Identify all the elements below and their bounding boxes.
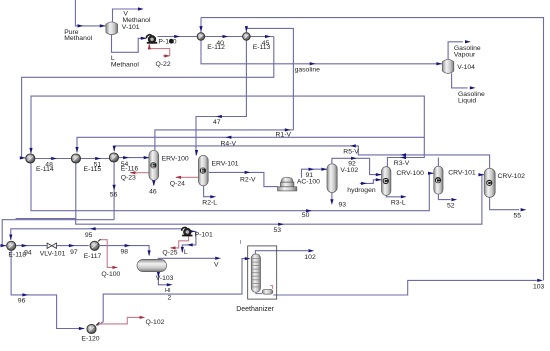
svg-text:46: 46 — [149, 188, 157, 195]
svg-text:V-104: V-104 — [457, 64, 475, 71]
svg-text:52: 52 — [447, 202, 455, 209]
svg-text:E-116: E-116 — [121, 166, 139, 173]
svg-text:E-112: E-112 — [207, 44, 225, 51]
svg-text:R3-L: R3-L — [391, 199, 406, 206]
svg-text:E-120: E-120 — [81, 336, 99, 343]
svg-text:R2-L: R2-L — [202, 200, 217, 207]
svg-text:R2-V: R2-V — [240, 176, 256, 183]
svg-text:95: 95 — [85, 232, 93, 239]
svg-text:P-101: P-101 — [195, 232, 213, 239]
svg-text:97: 97 — [70, 249, 78, 256]
svg-text:R3-V: R3-V — [394, 160, 410, 167]
svg-text:HI: HI — [165, 288, 171, 294]
svg-text:V-102: V-102 — [340, 167, 358, 174]
svg-text:96: 96 — [18, 298, 26, 305]
svg-text:CRV-101: CRV-101 — [448, 169, 476, 176]
svg-text:L: L — [184, 249, 188, 256]
svg-text:91: 91 — [306, 172, 314, 179]
svg-text:R5-V: R5-V — [343, 149, 359, 156]
svg-text:E-114: E-114 — [36, 166, 54, 173]
svg-text:V-103: V-103 — [156, 275, 174, 282]
svg-text:VLV-101: VLV-101 — [40, 251, 66, 258]
svg-text:Methanol: Methanol — [111, 61, 139, 68]
svg-text:Q-24: Q-24 — [170, 181, 185, 188]
svg-text:50: 50 — [302, 212, 310, 219]
svg-text:103: 103 — [533, 284, 545, 291]
svg-text:P-100: P-100 — [158, 39, 176, 46]
svg-text:93: 93 — [339, 201, 347, 208]
svg-text:Q-100: Q-100 — [101, 271, 120, 278]
svg-text:Methanol: Methanol — [64, 35, 92, 42]
svg-text:E: E — [151, 163, 155, 169]
svg-text:56: 56 — [110, 192, 118, 199]
svg-text:ERV-100: ERV-100 — [162, 156, 189, 163]
svg-text:E-115: E-115 — [84, 166, 102, 173]
svg-text:Q-23: Q-23 — [121, 175, 136, 182]
svg-text:2: 2 — [168, 295, 172, 302]
svg-text:R4-V: R4-V — [221, 141, 237, 148]
svg-text:R1-V: R1-V — [276, 132, 292, 139]
svg-text:98: 98 — [121, 249, 129, 256]
svg-text:gasoline: gasoline — [295, 66, 321, 73]
svg-text:E-113: E-113 — [253, 44, 271, 51]
svg-text:E-118: E-118 — [8, 252, 26, 259]
svg-text:CRV-100: CRV-100 — [396, 170, 424, 177]
svg-text:53: 53 — [274, 227, 282, 234]
svg-text:V: V — [214, 261, 219, 268]
svg-text:47: 47 — [213, 119, 221, 126]
svg-text:hydrogen: hydrogen — [347, 187, 376, 194]
svg-text:E: E — [201, 169, 205, 175]
svg-text:V-101: V-101 — [122, 24, 140, 31]
svg-text:Vapour: Vapour — [454, 51, 476, 58]
svg-text:Liquid: Liquid — [458, 97, 476, 104]
svg-text:102: 102 — [304, 254, 316, 261]
svg-text:E-117: E-117 — [84, 253, 102, 260]
svg-text:ERV-101: ERV-101 — [212, 160, 239, 167]
svg-text:AC-100: AC-100 — [297, 179, 320, 186]
svg-text:Q-25: Q-25 — [162, 249, 177, 256]
svg-text:92: 92 — [348, 161, 356, 168]
svg-text:55: 55 — [514, 213, 522, 220]
svg-text:Q-22: Q-22 — [156, 61, 171, 68]
svg-text:Deethanizer: Deethanizer — [236, 306, 274, 313]
svg-text:Q-102: Q-102 — [146, 319, 165, 326]
svg-text:CRV-102: CRV-102 — [498, 173, 526, 180]
